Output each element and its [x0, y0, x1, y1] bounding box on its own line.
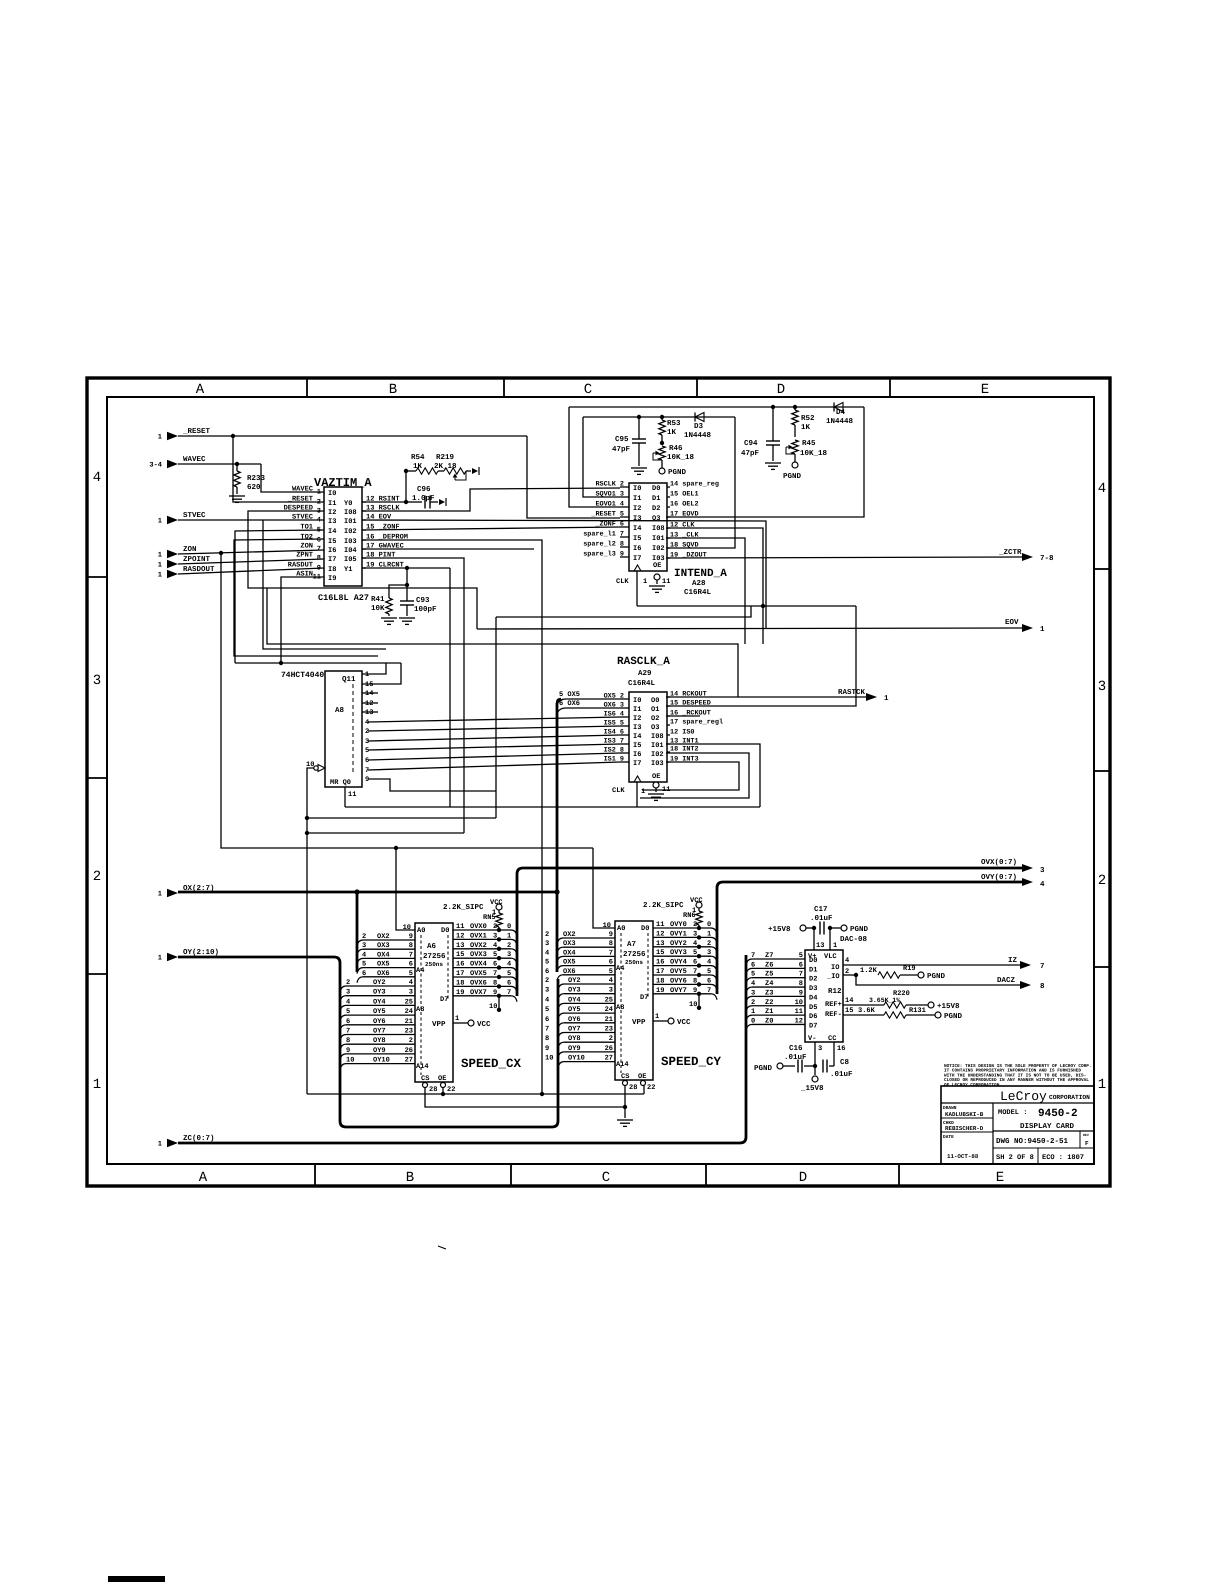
- svg-text:C17: C17: [814, 905, 828, 914]
- svg-text:OE: OE: [438, 1075, 446, 1083]
- svg-text:74HCT4040: 74HCT4040: [281, 671, 324, 680]
- svg-text:OY3: OY3: [373, 989, 386, 997]
- svg-text:C96: C96: [417, 485, 431, 494]
- svg-text:11: 11: [662, 578, 670, 586]
- svg-text:O3: O3: [652, 515, 660, 523]
- svg-text:3: 3: [818, 1045, 822, 1053]
- svg-text:6: 6: [365, 757, 369, 765]
- svg-text:OVX1: OVX1: [470, 932, 487, 940]
- svg-text:250ns: 250ns: [625, 959, 643, 966]
- svg-text:D0: D0: [641, 925, 649, 933]
- svg-text:7: 7: [1040, 963, 1045, 971]
- svg-text:3: 3: [609, 987, 613, 995]
- svg-text:8: 8: [545, 1035, 549, 1043]
- svg-text:I2: I2: [633, 505, 641, 513]
- svg-text:D: D: [799, 1170, 807, 1186]
- Q11 pin14/12/13 stubs: [362, 692, 378, 694]
- svg-text:D4: D4: [836, 409, 846, 417]
- svg-text:6: 6: [693, 959, 697, 967]
- wire _DEPROM net down to EPROM select: [362, 540, 542, 1094]
- resistor R41 10K: [389, 568, 407, 598]
- svg-text:15: 15: [845, 1007, 853, 1015]
- wire SPEED_CX CS net: [425, 1087, 625, 1107]
- svg-text:12: 12: [795, 1017, 803, 1025]
- svg-text:9: 9: [346, 1047, 350, 1055]
- svg-text:D7: D7: [640, 994, 648, 1002]
- svg-text:2: 2: [365, 728, 369, 736]
- svg-text:5: 5: [362, 961, 366, 969]
- svg-text:R41: R41: [371, 596, 385, 604]
- svg-text:PGND: PGND: [783, 472, 802, 481]
- wire ZON to EPROM A10 line: [221, 553, 593, 848]
- svg-text:21: 21: [405, 1018, 413, 1026]
- svg-text:EOVO1 4: EOVO1 4: [595, 501, 624, 509]
- svg-text:I03: I03: [344, 538, 357, 546]
- svg-text:7: 7: [507, 989, 511, 997]
- A7 OY address rows: [558, 984, 564, 990]
- wires Q11 outputs to RASCLK IS inputs: [368, 717, 620, 722]
- svg-text:12: 12: [656, 930, 664, 938]
- svg-text:OX6: OX6: [377, 970, 390, 978]
- svg-text:3: 3: [1040, 866, 1045, 875]
- svg-text:SPEED_CX: SPEED_CX: [461, 1057, 522, 1071]
- svg-text:14: 14: [365, 690, 373, 698]
- svg-text:Z7: Z7: [765, 952, 773, 960]
- svg-text:OVY3: OVY3: [670, 949, 687, 957]
- svg-text:ZPNT: ZPNT: [296, 552, 313, 560]
- svg-text:ECO : 1807: ECO : 1807: [1042, 1154, 1084, 1162]
- wire OE net SPEED_CX SPEED_CY: [307, 1093, 644, 1095]
- svg-text:3: 3: [1098, 679, 1106, 695]
- svg-text:3: 3: [707, 949, 711, 957]
- svg-text:I0: I0: [328, 490, 336, 498]
- wire INT2 net: [640, 753, 749, 798]
- svg-text:2: 2: [693, 921, 697, 929]
- svg-text:27: 27: [405, 1057, 413, 1065]
- output arrow OVY(0:7): [1022, 878, 1033, 886]
- svg-text:10: 10: [603, 922, 611, 930]
- svg-text:2K_18: 2K_18: [434, 462, 457, 471]
- svg-text:8: 8: [493, 979, 497, 987]
- svg-text:4: 4: [751, 980, 755, 988]
- svg-text:R12: R12: [828, 987, 842, 996]
- wire WAVEC net: [178, 463, 261, 465]
- svg-text:MR Q0: MR Q0: [330, 779, 351, 787]
- svg-text:14: 14: [845, 997, 853, 1005]
- svg-text:4: 4: [545, 996, 549, 1004]
- svg-text:2: 2: [545, 977, 549, 985]
- svg-text:10: 10: [795, 999, 803, 1007]
- svg-text:OVY0: OVY0: [670, 921, 687, 929]
- svg-text:A28: A28: [692, 579, 706, 588]
- svg-text:I01: I01: [651, 742, 664, 750]
- A7 OX address rows: [557, 938, 563, 944]
- svg-text:2: 2: [845, 968, 849, 976]
- svg-text:I03: I03: [651, 760, 664, 768]
- svg-text:I6: I6: [328, 547, 336, 555]
- svg-text:A8: A8: [335, 706, 345, 715]
- svg-text:12 IS0: 12 IS0: [670, 729, 694, 737]
- svg-text:CLK: CLK: [616, 578, 629, 586]
- svg-text:1: 1: [317, 489, 321, 497]
- svg-text:OY6: OY6: [373, 1018, 386, 1026]
- svg-text:Z5: Z5: [765, 971, 773, 979]
- svg-text:7: 7: [799, 971, 803, 979]
- svg-text:I3: I3: [633, 724, 641, 732]
- wire net box top inner: [583, 416, 735, 418]
- svg-text:6: 6: [545, 1016, 549, 1024]
- svg-text:5: 5: [693, 949, 697, 957]
- svg-text:7: 7: [409, 951, 413, 959]
- svg-text:OY7: OY7: [568, 1026, 581, 1034]
- svg-text:2: 2: [93, 869, 101, 885]
- svg-text:I08: I08: [652, 525, 665, 533]
- svg-text:1: 1: [455, 1015, 459, 1023]
- svg-text:6: 6: [507, 979, 511, 987]
- svg-text:1.2K: 1.2K: [860, 967, 878, 975]
- svg-text:A8: A8: [416, 1006, 424, 1014]
- svg-text:11: 11: [656, 921, 664, 929]
- ground at R233: [229, 495, 245, 497]
- svg-text:OY8: OY8: [373, 1037, 386, 1045]
- svg-text:250ns: 250ns: [425, 961, 443, 968]
- svg-text:7: 7: [346, 1028, 350, 1036]
- svg-text:E: E: [981, 382, 989, 398]
- svg-text:RN6: RN6: [683, 912, 696, 920]
- svg-text:A7: A7: [627, 941, 636, 949]
- svg-text:Z4: Z4: [765, 980, 773, 988]
- svg-text:OVX6: OVX6: [470, 979, 487, 987]
- bus OX vertical: [556, 703, 559, 972]
- svg-text:23: 23: [405, 1028, 413, 1036]
- svg-text:D0: D0: [441, 927, 449, 935]
- svg-text:CS: CS: [421, 1075, 429, 1083]
- svg-text:A4: A4: [416, 967, 424, 975]
- RN5 pin10 end: [498, 996, 500, 1009]
- svg-text:REF+: REF+: [825, 1001, 842, 1009]
- svg-text:1: 1: [158, 434, 162, 442]
- svg-text:OY4: OY4: [568, 996, 581, 1004]
- wire outer box right to EOVD: [666, 407, 864, 517]
- svg-text:A6: A6: [427, 942, 437, 951]
- svg-text:OY2: OY2: [373, 979, 386, 987]
- svg-text:I5: I5: [633, 742, 641, 750]
- svg-text:I1: I1: [633, 495, 641, 503]
- output arrow OVX(0:7): [1022, 864, 1033, 872]
- svg-text:REV: REV: [1083, 1133, 1089, 1137]
- ground at CS net: [617, 1119, 633, 1121]
- output arrow _ZCTR: [1022, 553, 1033, 561]
- svg-text:_ZONF 6: _ZONF 6: [594, 521, 624, 529]
- svg-text:12: 12: [456, 932, 464, 940]
- svg-text:2: 2: [545, 931, 549, 939]
- svg-text:OX3: OX3: [563, 940, 576, 948]
- svg-text:C93: C93: [416, 596, 430, 605]
- svg-text:O1: O1: [651, 706, 659, 714]
- svg-text:I7: I7: [633, 555, 641, 563]
- svg-text:Z1: Z1: [765, 1008, 773, 1016]
- wire DESPEED net from RASCLK: [248, 511, 477, 629]
- svg-text:OVY1: OVY1: [670, 930, 687, 938]
- svg-text:6: 6: [409, 961, 413, 969]
- wire _CLK net: [666, 538, 745, 644]
- svg-text:15 OEL1: 15 OEL1: [670, 491, 699, 499]
- svg-text:spare_l1 7: spare_l1 7: [583, 531, 624, 539]
- output arrow IZ: [1020, 961, 1031, 969]
- wire vertical net x496: [495, 617, 497, 818]
- svg-text:R52: R52: [801, 414, 815, 423]
- svg-text:9: 9: [799, 989, 803, 997]
- wire outer box left to EOVO1: [569, 407, 620, 507]
- svg-text:Z2: Z2: [765, 999, 773, 1007]
- DAC V- pin 3 to -15V8: [814, 1042, 816, 1075]
- svg-text:1: 1: [1098, 1077, 1106, 1093]
- wire box under Q11 818: [307, 817, 496, 819]
- resistor R219 2K_18 trimmer: [438, 470, 444, 472]
- wire Q11 pin9 routing: [368, 779, 496, 791]
- svg-text:D: D: [777, 382, 785, 398]
- capacitor C93 100pF: [406, 585, 408, 601]
- svg-text:D6: D6: [809, 1013, 817, 1021]
- svg-text:+15V8: +15V8: [768, 925, 791, 934]
- svg-text:1: 1: [751, 1008, 755, 1016]
- svg-text:OY3: OY3: [568, 987, 581, 995]
- svg-text:1: 1: [93, 1077, 101, 1093]
- svg-text:1: 1: [158, 518, 162, 526]
- svg-text:25: 25: [605, 996, 613, 1004]
- svg-text:R54: R54: [411, 454, 425, 462]
- drawing frame outer border: [87, 378, 1110, 1186]
- wire A10 feed SPEED_CX pin10: [396, 848, 415, 930]
- svg-text:I7: I7: [328, 556, 336, 564]
- svg-text:spare_l3 9: spare_l3 9: [583, 551, 624, 559]
- svg-text:INTEND_A: INTEND_A: [674, 568, 727, 580]
- svg-text:MODEL :: MODEL :: [998, 1109, 1027, 1117]
- svg-text:I4: I4: [633, 525, 641, 533]
- svg-text:13: 13: [656, 940, 664, 948]
- svg-text:0: 0: [751, 1017, 755, 1025]
- svg-text:1K: 1K: [801, 424, 811, 432]
- svg-text:I5: I5: [633, 535, 641, 543]
- svg-text:3: 3: [545, 940, 549, 948]
- output arrow RASTCK: [866, 693, 877, 701]
- svg-text:28: 28: [429, 1086, 437, 1094]
- svg-text:26: 26: [605, 1045, 613, 1053]
- svg-text:A: A: [196, 382, 205, 398]
- svg-text:ZON: ZON: [183, 545, 197, 554]
- svg-text:6: 6: [317, 537, 321, 545]
- wire RASDOUT: [178, 568, 324, 574]
- svg-text:OX3: OX3: [377, 942, 390, 950]
- svg-text:A14: A14: [616, 1061, 629, 1069]
- svg-text:I01: I01: [344, 518, 357, 526]
- wire Q11 pin1 to ASIN: [362, 663, 386, 674]
- svg-text:7: 7: [493, 970, 497, 978]
- svg-text:OY10: OY10: [568, 1055, 585, 1063]
- svg-text:6: 6: [346, 1018, 350, 1026]
- svg-text:4: 4: [707, 959, 711, 967]
- svg-text:1K: 1K: [413, 463, 423, 471]
- svg-text:_RESET 5: _RESET 5: [590, 511, 624, 519]
- svg-text:I7: I7: [633, 760, 641, 768]
- EPROM A7 27256 box SPEED_CY: [615, 921, 653, 1080]
- capacitor C96 1.0pF: [406, 501, 422, 503]
- svg-text:I6: I6: [633, 751, 641, 759]
- svg-text:SH 2 OF 8: SH 2 OF 8: [996, 1154, 1034, 1162]
- svg-text:OY8: OY8: [568, 1035, 581, 1043]
- wire ZON net: [178, 550, 324, 554]
- svg-text:8: 8: [693, 977, 697, 985]
- svg-text:3: 3: [93, 673, 101, 689]
- svg-text:_15V8: _15V8: [800, 1084, 824, 1093]
- svg-text:5: 5: [609, 968, 613, 976]
- svg-text:VCC: VCC: [477, 1020, 491, 1029]
- offpage stub after C96: [439, 499, 445, 505]
- svg-text:9: 9: [693, 987, 697, 995]
- svg-text:15: 15: [656, 949, 664, 957]
- svg-text:D1: D1: [809, 966, 817, 974]
- svg-text:17: 17: [456, 970, 464, 978]
- zone tick marks left: [87, 576, 107, 578]
- svg-text:15 DESPEED: 15 DESPEED: [670, 700, 711, 708]
- svg-text:1K: 1K: [667, 429, 677, 437]
- DAC U-R12 DAC-08 box: [805, 950, 843, 1042]
- svg-text:C95: C95: [615, 435, 629, 444]
- diode D4 1N4448: [834, 403, 843, 412]
- svg-text:10: 10: [489, 1003, 497, 1011]
- svg-text:3: 3: [545, 987, 549, 995]
- svg-text:OY2: OY2: [568, 977, 581, 985]
- svg-text:1: 1: [158, 572, 162, 580]
- svg-text:7: 7: [609, 949, 613, 957]
- wire SPEED_CY CS to ground: [624, 1085, 626, 1118]
- svg-text:1: 1: [158, 955, 162, 963]
- svg-text:O2: O2: [651, 715, 659, 723]
- svg-text:24: 24: [605, 1006, 613, 1014]
- svg-text:I04: I04: [344, 547, 357, 555]
- svg-text:PGND: PGND: [944, 1012, 963, 1021]
- capacitor C8 .01uF: [822, 1060, 824, 1073]
- svg-text:R45: R45: [802, 440, 816, 448]
- svg-text:.01uF: .01uF: [784, 1053, 807, 1062]
- svg-text:9: 9: [365, 776, 369, 784]
- svg-text:27256: 27256: [423, 952, 446, 961]
- svg-text:4: 4: [362, 951, 366, 959]
- wire PINT net: [362, 558, 464, 833]
- svg-text:13: 13: [456, 942, 464, 950]
- wire CLRCNT to 4040 MR: [449, 568, 451, 807]
- svg-text:C94: C94: [744, 439, 758, 448]
- svg-text:2: 2: [1098, 873, 1106, 889]
- svg-text:D3: D3: [694, 422, 704, 431]
- svg-text:16: 16: [456, 961, 464, 969]
- ground at C94: [765, 462, 781, 464]
- svg-text:_ZCTR: _ZCTR: [998, 548, 1022, 557]
- svg-text:OVX7: OVX7: [470, 989, 487, 997]
- wire INT3 net: [642, 762, 739, 790]
- svg-text:1: 1: [158, 562, 162, 570]
- svg-text:OVX2: OVX2: [470, 942, 487, 950]
- stray scan mark bottom left: [108, 1576, 165, 1582]
- bus ZC horizontal: [178, 1142, 740, 1145]
- A6 output rows to bus: [453, 929, 511, 931]
- svg-text:OX4: OX4: [563, 949, 576, 957]
- svg-text:O3: O3: [651, 724, 659, 732]
- svg-text:A0: A0: [417, 927, 425, 935]
- svg-text:16 OEL2: 16 OEL2: [670, 501, 699, 509]
- svg-text:10: 10: [346, 1057, 354, 1065]
- svg-text:6: 6: [799, 961, 803, 969]
- svg-text:6: 6: [707, 977, 711, 985]
- svg-text:18 SQVD: 18 SQVD: [670, 542, 699, 550]
- svg-text:C8: C8: [840, 1058, 850, 1067]
- svg-text:1: 1: [158, 1141, 162, 1149]
- trimmer R46 10K_18: [660, 441, 664, 445]
- wire CLRCNT net: [362, 567, 450, 569]
- svg-text:OVY5: OVY5: [670, 968, 687, 976]
- bus OY horizontal to vertical: [178, 956, 334, 959]
- svg-text:VPP: VPP: [432, 1021, 446, 1029]
- svg-text:2: 2: [751, 999, 755, 1007]
- svg-text:OVY2: OVY2: [670, 940, 687, 948]
- svg-text:8: 8: [409, 942, 413, 950]
- resistor R19 1.2K: [843, 974, 856, 976]
- svg-text:OY5: OY5: [568, 1006, 581, 1014]
- svg-text:OVY6: OVY6: [670, 977, 687, 985]
- svg-text:17 EOVD: 17 EOVD: [670, 511, 699, 519]
- svg-text:D7: D7: [809, 1022, 817, 1030]
- capacitor C95 47pF: [637, 415, 641, 419]
- svg-text:11-OCT-88: 11-OCT-88: [947, 1153, 979, 1160]
- svg-text:13: 13: [365, 709, 373, 717]
- svg-text:.01uF: .01uF: [810, 914, 833, 923]
- svg-text:8: 8: [346, 1037, 350, 1045]
- svg-text:18 INT2: 18 INT2: [670, 746, 699, 754]
- svg-text:15: 15: [456, 951, 464, 959]
- svg-text:RN5: RN5: [483, 914, 496, 922]
- svg-text:RASTCK: RASTCK: [838, 688, 866, 697]
- svg-text:3: 3: [346, 989, 350, 997]
- svg-text:OX5: OX5: [563, 959, 576, 967]
- capacitor C94 47pF: [771, 405, 775, 409]
- svg-text:OVX3: OVX3: [470, 951, 487, 959]
- svg-text:12: 12: [365, 700, 373, 708]
- svg-text:10K_18: 10K_18: [667, 453, 695, 462]
- svg-text:18: 18: [456, 979, 464, 987]
- svg-text:_RESET: _RESET: [182, 427, 211, 436]
- svg-text:4: 4: [1098, 481, 1106, 497]
- svg-text:0: 0: [507, 923, 511, 931]
- svg-text:4: 4: [1040, 881, 1045, 889]
- wire net box top outer: [569, 406, 864, 408]
- svg-text:4: 4: [545, 949, 549, 957]
- bus OVY vertical and output: [716, 888, 719, 994]
- svg-text:9450-2: 9450-2: [1038, 1108, 1078, 1120]
- svg-text:I02: I02: [344, 528, 357, 536]
- svg-text:DWG NO:9450-2-51: DWG NO:9450-2-51: [996, 1137, 1069, 1146]
- svg-text:OVY7: OVY7: [670, 987, 687, 995]
- svg-text:DATE: DATE: [943, 1135, 954, 1140]
- resistor R220 3.65K_1%: [843, 1004, 884, 1006]
- svg-text:21: 21: [605, 1016, 613, 1024]
- svg-text:22: 22: [447, 1086, 455, 1094]
- svg-text:Q11: Q11: [342, 675, 356, 684]
- svg-text:5: 5: [545, 959, 549, 967]
- svg-text:OY7: OY7: [373, 1028, 386, 1036]
- svg-text:2: 2: [707, 940, 711, 948]
- svg-text:3: 3: [493, 932, 497, 940]
- svg-text:LeCroy: LeCroy: [1000, 1089, 1047, 1104]
